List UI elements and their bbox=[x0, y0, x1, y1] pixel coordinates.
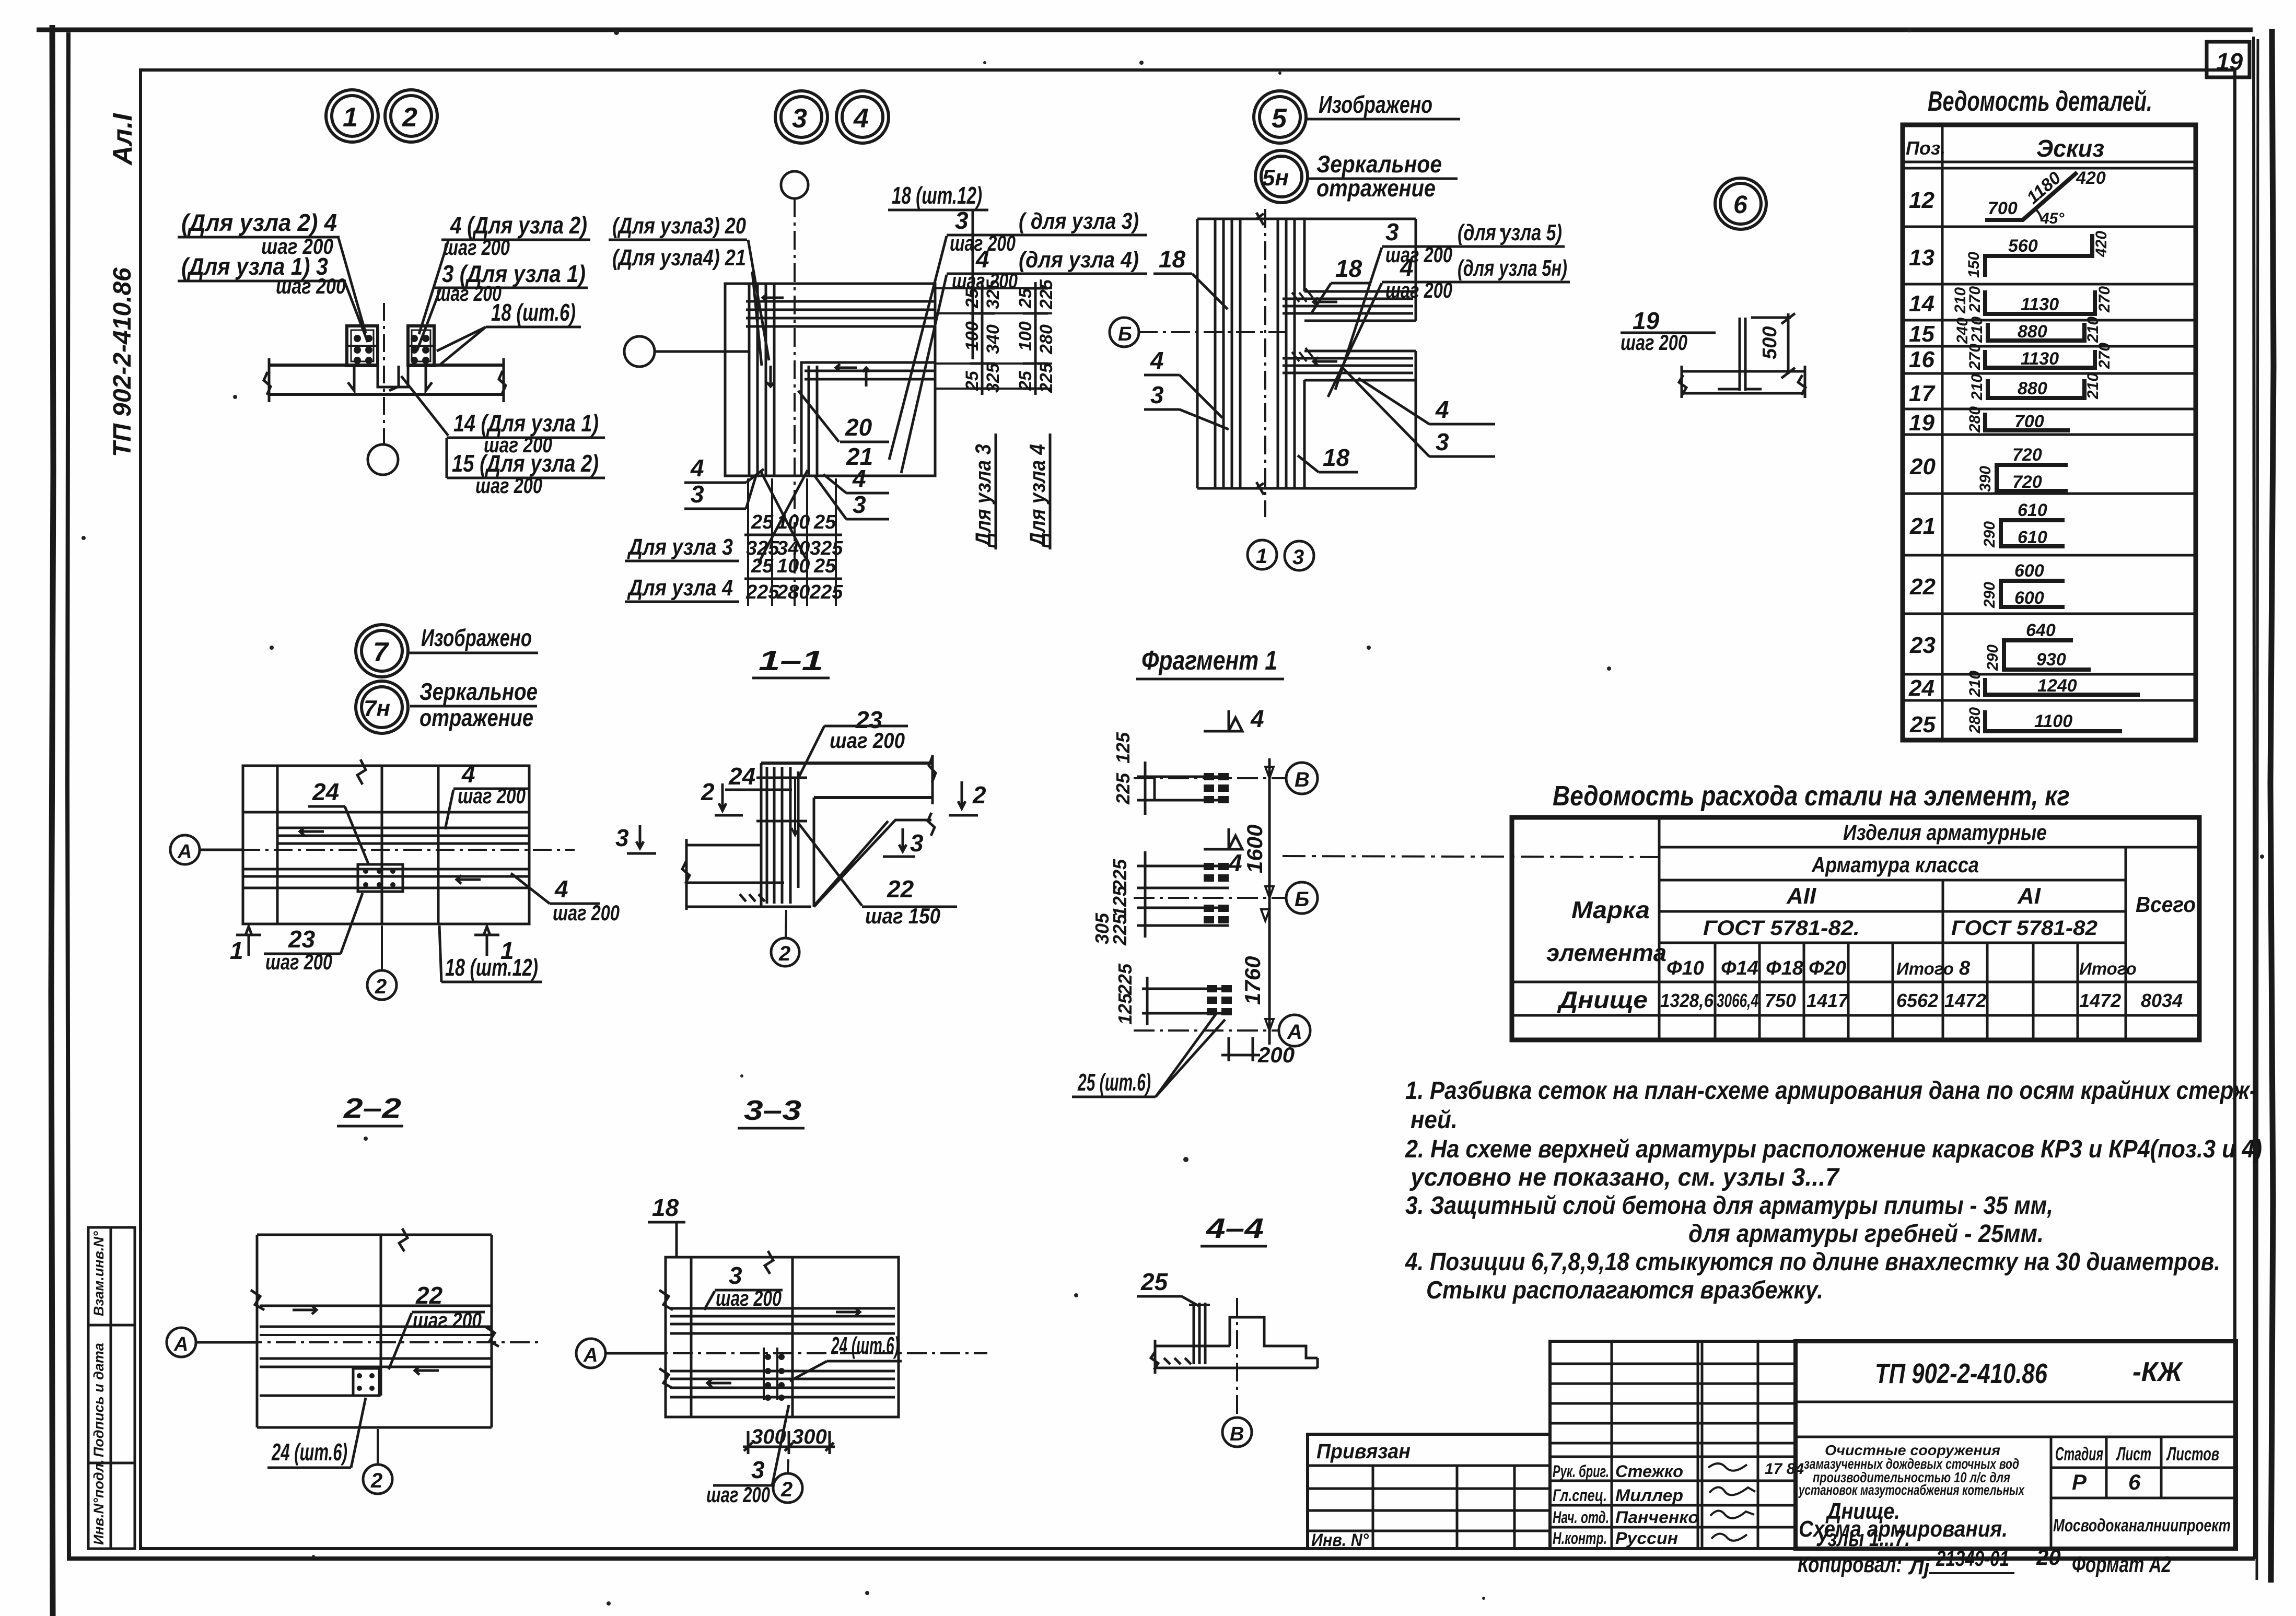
svg-text:(для узла 5н): (для узла 5н) bbox=[1458, 255, 1567, 281]
svg-text:6562: 6562 bbox=[1896, 990, 1938, 1011]
svg-text:125: 125 bbox=[1109, 885, 1130, 917]
svg-text:шаг 200: шаг 200 bbox=[716, 1286, 782, 1310]
row14 bbox=[1985, 290, 2095, 314]
svg-text:ней.: ней. bbox=[1411, 1106, 1458, 1134]
svg-text:условно не показано, см. узлы: условно не показано, см. узлы 3...7 bbox=[1409, 1164, 1840, 1191]
svg-text:Ф20: Ф20 bbox=[1809, 957, 1846, 979]
svg-text:290: 290 bbox=[1981, 582, 1998, 608]
DETAIL NODES 1/2 cross-section bbox=[178, 209, 605, 498]
svg-text:Изображено: Изображено bbox=[1319, 91, 1432, 118]
rebar cluster near B bbox=[1137, 762, 1229, 815]
svg-text:100: 100 bbox=[777, 511, 810, 533]
svg-text:100: 100 bbox=[777, 555, 810, 577]
svg-text:23: 23 bbox=[1909, 633, 1936, 658]
svg-text:210: 210 bbox=[1966, 671, 1984, 697]
svg-text:1: 1 bbox=[1256, 545, 1267, 568]
svg-text:280: 280 bbox=[1036, 324, 1056, 355]
svg-text:Рук. бриг.: Рук. бриг. bbox=[1553, 1462, 1609, 1481]
svg-text:19: 19 bbox=[1909, 410, 1934, 436]
svg-text:2: 2 bbox=[972, 781, 986, 809]
axis rows bbox=[1134, 777, 1286, 779]
svg-text:15: 15 bbox=[1909, 321, 1934, 347]
DETAIL NODE 7 plan bbox=[170, 759, 620, 1000]
svg-text:22: 22 bbox=[415, 1282, 443, 1309]
row21 bbox=[2001, 520, 2065, 546]
svg-text:шаг 200: шаг 200 bbox=[276, 274, 346, 298]
profile bbox=[1155, 1345, 1230, 1348]
svg-text:1130: 1130 bbox=[2021, 295, 2059, 314]
X leader bbox=[815, 821, 888, 905]
svg-text:300: 300 bbox=[792, 1425, 827, 1448]
svg-text:Инв.N°подл.: Инв.N°подл. bbox=[91, 1459, 107, 1545]
vertical axis bbox=[1268, 758, 1271, 1045]
svg-text:4: 4 bbox=[1250, 705, 1264, 732]
outline bbox=[666, 1257, 899, 1417]
svg-text:100: 100 bbox=[1016, 321, 1035, 351]
svg-text:Р: Р bbox=[2072, 1470, 2087, 1494]
bottom circles 1 3 bbox=[1248, 540, 1277, 569]
svg-text:25: 25 bbox=[1016, 288, 1035, 309]
left wall rebar bbox=[748, 284, 751, 476]
row22 bbox=[2001, 581, 2065, 607]
dim arrows on axis bbox=[1261, 767, 1274, 1031]
svg-text:24 (шт.6): 24 (шт.6) bbox=[271, 1438, 347, 1466]
svg-text:Итого: Итого bbox=[2079, 959, 2137, 978]
middle revision block bbox=[1550, 1341, 1796, 1549]
svg-text:23: 23 bbox=[288, 926, 316, 953]
svg-text:225: 225 bbox=[1036, 362, 1056, 393]
svg-text:290: 290 bbox=[1981, 521, 1998, 548]
svg-text:270: 270 bbox=[2096, 343, 2113, 369]
svg-text:290: 290 bbox=[1984, 645, 2001, 671]
svg-text:600: 600 bbox=[2014, 561, 2044, 581]
svg-text:14: 14 bbox=[1909, 291, 1934, 317]
svg-text:25: 25 bbox=[751, 555, 774, 577]
NOTES bbox=[1405, 1077, 2262, 1304]
svg-text:отражение: отражение bbox=[419, 704, 533, 731]
svg-text:ГОСТ 5781-82: ГОСТ 5781-82 bbox=[1951, 917, 2097, 940]
svg-text:225: 225 bbox=[809, 581, 843, 603]
svg-text:В: В bbox=[1295, 768, 1310, 791]
svg-text:А: А bbox=[177, 841, 192, 863]
svg-text:930: 930 bbox=[2036, 650, 2066, 670]
svg-text:Всего: Всего bbox=[2136, 892, 2196, 917]
svg-text:270: 270 bbox=[2096, 286, 2113, 313]
row15 bbox=[1988, 323, 2084, 341]
svg-text:100: 100 bbox=[962, 321, 982, 351]
svg-text:1130: 1130 bbox=[2021, 349, 2059, 369]
svg-text:ТП 902-2-410.86: ТП 902-2-410.86 bbox=[109, 267, 136, 457]
svg-text:280: 280 bbox=[1966, 707, 1984, 734]
svg-text:4: 4 bbox=[554, 875, 568, 903]
svg-text:17: 17 bbox=[1909, 381, 1936, 406]
svg-text:21349-01: 21349-01 bbox=[1936, 1546, 2009, 1571]
svg-text:420: 420 bbox=[2093, 231, 2110, 257]
outline bbox=[257, 1234, 492, 1236]
embedded box bbox=[353, 1368, 379, 1396]
svg-text:2: 2 bbox=[701, 778, 715, 805]
svg-text:элемента: элемента bbox=[1546, 939, 1666, 966]
svg-text:18: 18 bbox=[1323, 444, 1350, 471]
svg-text:2: 2 bbox=[778, 942, 790, 965]
svg-text:225: 225 bbox=[1114, 963, 1136, 996]
DETAIL NODE 6 bbox=[1621, 307, 1805, 398]
svg-text:225: 225 bbox=[745, 581, 779, 603]
svg-text:Инв. N°: Инв. N° bbox=[1311, 1530, 1369, 1550]
svg-text:2. На схеме верхней арматуры р: 2. На схеме верхней арматуры расположени… bbox=[1405, 1135, 2262, 1163]
svg-text:150: 150 bbox=[1965, 252, 1983, 278]
svg-text:210: 210 bbox=[2084, 373, 2102, 400]
bottom labels bbox=[401, 376, 448, 436]
svg-text:Марка: Марка bbox=[1571, 896, 1650, 923]
svg-text:4. Позиции 6,7,8,9,18 стыкуютс: 4. Позиции 6,7,8,9,18 стыкуются по длине… bbox=[1405, 1248, 2220, 1276]
svg-text:4: 4 bbox=[852, 465, 866, 492]
svg-text:4: 4 bbox=[853, 103, 869, 134]
svg-text:210: 210 bbox=[2084, 317, 2102, 343]
svg-text:18 (шт.12): 18 (шт.12) bbox=[892, 182, 982, 209]
svg-text:АI: АI bbox=[2017, 883, 2041, 909]
svg-text:3: 3 bbox=[792, 103, 807, 134]
svg-text:25: 25 bbox=[813, 511, 836, 533]
svg-text:Б: Б bbox=[1118, 323, 1132, 345]
svg-text:установок мазутоснабжения коте: установок мазутоснабжения котельных bbox=[1798, 1482, 2025, 1498]
svg-text:Итого: Итого bbox=[1896, 959, 1954, 978]
svg-text:4: 4 bbox=[1400, 254, 1414, 281]
svg-text:А: А bbox=[583, 1344, 598, 1366]
svg-text:3: 3 bbox=[1436, 428, 1449, 455]
svg-text:3: 3 bbox=[691, 481, 704, 508]
svg-text:8034: 8034 bbox=[2141, 990, 2183, 1011]
svg-text:Панченко: Панченко bbox=[1615, 1508, 1699, 1527]
svg-text:для арматуры гребней - 25мм.: для арматуры гребней - 25мм. bbox=[1688, 1220, 2044, 1248]
svg-text:210: 210 bbox=[1952, 287, 1969, 314]
svg-text:Ал.I: Ал.I bbox=[108, 113, 138, 166]
svg-text:Гл.спец.: Гл.спец. bbox=[1553, 1486, 1607, 1505]
svg-text:420: 420 bbox=[2076, 168, 2106, 188]
embedded element box bbox=[358, 864, 403, 892]
svg-text:ТП 902-2-410.86: ТП 902-2-410.86 bbox=[1875, 1358, 2048, 1389]
svg-text:1: 1 bbox=[230, 937, 243, 964]
svg-text:2: 2 bbox=[780, 1478, 792, 1501]
hooks below bbox=[348, 366, 354, 391]
svg-text:25: 25 bbox=[1016, 370, 1035, 391]
svg-text:Зеркальное: Зеркальное bbox=[419, 678, 538, 705]
svg-text:720: 720 bbox=[2012, 445, 2042, 465]
base hatch bbox=[740, 894, 765, 901]
svg-text:Изображено: Изображено bbox=[421, 624, 532, 651]
svg-text:шаг 200: шаг 200 bbox=[830, 728, 905, 753]
svg-text:1328,6: 1328,6 bbox=[1660, 990, 1714, 1011]
svg-text:16: 16 bbox=[1909, 347, 1934, 372]
svg-text:Подпись и дата: Подпись и дата bbox=[91, 1343, 107, 1457]
svg-text:3: 3 bbox=[729, 1262, 742, 1289]
svg-text:Нач. отд.: Нач. отд. bbox=[1553, 1508, 1609, 1527]
svg-text:12: 12 bbox=[1909, 188, 1934, 213]
svg-text:шаг 200: шаг 200 bbox=[1385, 278, 1452, 302]
svg-text:АII: АII bbox=[1786, 883, 1816, 909]
dots cluster bbox=[765, 1354, 785, 1401]
row16 bbox=[1985, 350, 2095, 368]
lower left slab bbox=[686, 844, 762, 847]
svg-text:225: 225 bbox=[1036, 279, 1056, 310]
svg-text:640: 640 bbox=[2026, 620, 2056, 640]
svg-text:13: 13 bbox=[1909, 245, 1934, 271]
svg-text:610: 610 bbox=[2018, 500, 2047, 520]
svg-text:24: 24 bbox=[1908, 675, 1934, 701]
svg-text:22: 22 bbox=[1909, 574, 1936, 600]
svg-text:1: 1 bbox=[500, 937, 514, 964]
lower slab band bbox=[1304, 350, 1416, 353]
DETAIL NODES 3/4 corner plan bbox=[609, 171, 1147, 606]
signatures squiggles bbox=[1708, 1463, 1747, 1471]
svg-text:В: В bbox=[1230, 1423, 1244, 1445]
svg-text:Взам.инв.N°: Взам.инв.N° bbox=[91, 1231, 107, 1316]
right dimension chains bbox=[935, 288, 1052, 389]
SECTION 4-4 bbox=[1137, 1213, 1318, 1447]
svg-text:720: 720 bbox=[2012, 472, 2042, 492]
top group bbox=[670, 1307, 895, 1310]
svg-text:18 (шт.12): 18 (шт.12) bbox=[445, 954, 538, 981]
FRAGMENT 1 bbox=[1072, 646, 1659, 1097]
svg-text:А: А bbox=[1287, 1021, 1302, 1044]
corner hatch ticks bbox=[1292, 288, 1313, 302]
right rib bbox=[408, 326, 434, 366]
svg-text:210: 210 bbox=[1968, 374, 1986, 401]
binding strip lines right bbox=[2257, 39, 2258, 1580]
svg-text:Стежко: Стежко bbox=[1615, 1462, 1683, 1481]
svg-text:305: 305 bbox=[1091, 912, 1113, 944]
inner corner bbox=[801, 362, 935, 476]
svg-text:Фрагмент 1: Фрагмент 1 bbox=[1141, 646, 1277, 676]
svg-text:280: 280 bbox=[1966, 406, 1984, 433]
svg-text:500: 500 bbox=[1759, 326, 1781, 359]
outer scan edge left bbox=[51, 25, 53, 1616]
svg-text:-КЖ: -КЖ bbox=[2132, 1357, 2184, 1387]
svg-text:(Для узла3) 20: (Для узла3) 20 bbox=[612, 213, 746, 239]
svg-text:125: 125 bbox=[1112, 732, 1134, 764]
svg-text:1417: 1417 bbox=[1807, 990, 1849, 1011]
svg-text:шаг 200: шаг 200 bbox=[1385, 242, 1452, 267]
svg-text:Лист: Лист bbox=[2116, 1443, 2151, 1465]
svg-text:3–3: 3–3 bbox=[744, 1095, 801, 1126]
svg-text:Привязан: Привязан bbox=[1316, 1440, 1411, 1463]
svg-text:5: 5 bbox=[1272, 103, 1287, 134]
svg-text:Стыки располагаются вразбежку.: Стыки располагаются вразбежку. bbox=[1426, 1277, 1823, 1304]
svg-text:ГОСТ 5781-82.: ГОСТ 5781-82. bbox=[1703, 917, 1860, 940]
svg-text:1760: 1760 bbox=[1240, 956, 1265, 1005]
svg-text:4: 4 bbox=[1435, 396, 1449, 423]
svg-text:Изделия арматурные: Изделия арматурные bbox=[1843, 820, 2047, 845]
svg-text:5н: 5н bbox=[1262, 165, 1289, 191]
svg-text:25 (шт.6): 25 (шт.6) bbox=[1077, 1069, 1151, 1096]
svg-text:шаг 150: шаг 150 bbox=[865, 904, 940, 928]
plan outline bbox=[725, 284, 935, 476]
svg-text:шаг 200: шаг 200 bbox=[413, 1308, 482, 1332]
svg-text:Б: Б bbox=[1295, 888, 1309, 911]
svg-text:24: 24 bbox=[312, 778, 339, 805]
svg-text:18 (шт.6): 18 (шт.6) bbox=[491, 299, 576, 326]
svg-text:Ф10: Ф10 bbox=[1666, 957, 1704, 979]
svg-text:Для узла 3: Для узла 3 bbox=[627, 534, 733, 560]
svg-text:7н: 7н bbox=[364, 696, 390, 721]
svg-text:Зеркальное: Зеркальное bbox=[1316, 150, 1442, 178]
svg-text:Ф14: Ф14 bbox=[1721, 957, 1758, 979]
svg-text:(Для узла 2) 4: (Для узла 2) 4 bbox=[181, 209, 337, 236]
svg-text:шаг 200: шаг 200 bbox=[265, 950, 332, 974]
svg-text:1600: 1600 bbox=[1242, 825, 1267, 873]
sheet number box 19 bbox=[2207, 42, 2250, 77]
svg-text:880: 880 bbox=[2018, 379, 2047, 399]
left stamp strip bbox=[88, 1227, 135, 1549]
svg-text:18: 18 bbox=[1159, 245, 1186, 273]
svg-text:25: 25 bbox=[962, 288, 982, 309]
svg-text:шаг 200: шаг 200 bbox=[443, 235, 510, 260]
row24 bbox=[1985, 678, 2140, 695]
top and bottom edges bbox=[1197, 218, 1416, 220]
recess U between ribs bbox=[378, 365, 408, 387]
svg-text:1. Разбивка сеток на план-схе: 1. Разбивка сеток на план-схеме армирова… bbox=[1405, 1077, 2257, 1105]
svg-text:шаг 200: шаг 200 bbox=[475, 473, 542, 498]
svg-text:1472: 1472 bbox=[2079, 990, 2121, 1011]
svg-text:20: 20 bbox=[1909, 454, 1936, 479]
slope and right lower edge bbox=[814, 820, 931, 907]
VEDOMOST DETALEY TABLE (top right) bbox=[1903, 86, 2196, 740]
left rib bbox=[347, 326, 378, 366]
outer sheet border bbox=[37, 28, 2253, 32]
svg-text:шаг 200: шаг 200 bbox=[1621, 330, 1687, 355]
row20 bbox=[1997, 465, 2068, 491]
svg-text:Ведомость расхода стали на эле: Ведомость расхода стали на элемент, кг bbox=[1553, 780, 2070, 812]
svg-text:22: 22 bbox=[887, 875, 914, 903]
svg-text:( для узла 3): ( для узла 3) bbox=[1019, 208, 1139, 234]
svg-text:Днище: Днище bbox=[1557, 986, 1648, 1013]
right area bbox=[1796, 1341, 2236, 1549]
svg-text:700: 700 bbox=[1988, 198, 2018, 218]
rebar cluster near Б bbox=[1137, 851, 1229, 938]
svg-text:25: 25 bbox=[1909, 712, 1936, 737]
NODE CIRCLES bbox=[326, 90, 1766, 733]
crossing leaders to bottom mid labels bbox=[759, 470, 808, 563]
row19 bbox=[1985, 413, 2070, 430]
svg-text:2: 2 bbox=[370, 1469, 382, 1492]
row13 sketch bbox=[1985, 234, 2092, 277]
svg-text:1100: 1100 bbox=[2034, 711, 2072, 731]
svg-text:45°: 45° bbox=[2040, 210, 2065, 227]
svg-text:25: 25 bbox=[962, 370, 982, 391]
svg-text:6: 6 bbox=[1733, 191, 1747, 219]
STEEL CONSUMPTION TABLE bbox=[1512, 780, 2199, 1040]
svg-text:18: 18 bbox=[652, 1194, 679, 1221]
svg-text:3066,4: 3066,4 bbox=[1717, 990, 1758, 1011]
svg-text:3: 3 bbox=[910, 829, 924, 857]
svg-text:21: 21 bbox=[1909, 513, 1936, 539]
svg-text:2–2: 2–2 bbox=[343, 1093, 401, 1124]
svg-text:Для узла 4: Для узла 4 bbox=[1025, 444, 1050, 548]
svg-text:Для узла 4: Для узла 4 bbox=[627, 575, 733, 601]
svg-text:4: 4 bbox=[690, 454, 704, 482]
svg-text:отражение: отражение bbox=[1316, 174, 1436, 202]
svg-text:20: 20 bbox=[2036, 1545, 2061, 1570]
svg-text:280: 280 bbox=[776, 581, 810, 603]
slab bbox=[269, 364, 378, 367]
svg-text:6: 6 bbox=[2128, 1470, 2141, 1494]
svg-text:240: 240 bbox=[1954, 318, 1971, 344]
svg-text:3: 3 bbox=[615, 824, 629, 851]
svg-text:1240: 1240 bbox=[2037, 676, 2077, 696]
svg-text:560: 560 bbox=[2008, 236, 2038, 256]
svg-text:325: 325 bbox=[983, 362, 1003, 393]
svg-text:325: 325 bbox=[983, 279, 1003, 309]
svg-text:4–4: 4–4 bbox=[1206, 1213, 1264, 1244]
svg-text:Копировал:: Копировал: bbox=[1798, 1552, 1902, 1577]
row12 sketch bbox=[1985, 172, 2077, 220]
svg-text:24: 24 bbox=[728, 763, 755, 790]
svg-text:2: 2 bbox=[375, 975, 387, 998]
svg-text:600: 600 bbox=[2014, 588, 2044, 608]
svg-text:25: 25 bbox=[813, 555, 836, 577]
svg-text:Мосводоканалниипроект: Мосводоканалниипроект bbox=[2053, 1516, 2231, 1536]
bars bbox=[1193, 1303, 1195, 1364]
row23 bbox=[2004, 640, 2091, 670]
200 dim bbox=[1221, 1037, 1260, 1061]
svg-text:Лj: Лj bbox=[1908, 1556, 1930, 1579]
svg-text:4: 4 bbox=[1150, 347, 1164, 374]
svg-text:Н.контр.: Н.контр. bbox=[1553, 1529, 1607, 1548]
svg-text:3: 3 bbox=[751, 1456, 765, 1483]
svg-text:Ф18: Ф18 bbox=[1766, 957, 1804, 979]
svg-text:Эскиз: Эскиз bbox=[2036, 135, 2104, 162]
small arrows in plan bbox=[763, 294, 784, 301]
rebar cluster near A bbox=[1142, 977, 1229, 1025]
svg-text:25: 25 bbox=[751, 511, 774, 533]
upper slab bbox=[761, 762, 933, 765]
wall band verticals bbox=[1196, 219, 1199, 488]
svg-text:Стадия: Стадия bbox=[2055, 1443, 2103, 1465]
svg-text:1: 1 bbox=[343, 102, 358, 133]
svg-text:Миллер: Миллер bbox=[1615, 1486, 1683, 1505]
TITLE BLOCK bbox=[1308, 1341, 2236, 1551]
svg-text:(для узла 4): (для узла 4) bbox=[1019, 247, 1139, 273]
inner lines bbox=[260, 1305, 492, 1307]
svg-text:(Для узла4) 21: (Для узла4) 21 bbox=[612, 245, 746, 271]
svg-text:4: 4 bbox=[1228, 849, 1242, 876]
svg-text:1472: 1472 bbox=[1944, 990, 1986, 1011]
tie ticks bbox=[756, 777, 807, 779]
left attach part bbox=[1308, 1434, 1550, 1549]
DETAIL NODE 5 tee plan bbox=[1110, 209, 1570, 570]
top wall rebar bbox=[746, 300, 935, 303]
svg-text:Листов: Листов bbox=[2166, 1443, 2219, 1465]
svg-text:390: 390 bbox=[1977, 466, 1994, 492]
svg-text:7: 7 bbox=[373, 637, 389, 668]
svg-text:3: 3 bbox=[1385, 218, 1399, 245]
svg-text:3: 3 bbox=[1292, 546, 1304, 569]
svg-text:17 84: 17 84 bbox=[1765, 1460, 1804, 1478]
svg-text:25: 25 bbox=[1140, 1268, 1169, 1295]
svg-text:225: 225 bbox=[1112, 772, 1134, 805]
svg-text:Арматура класса: Арматура класса bbox=[1811, 852, 1979, 877]
svg-text:200: 200 bbox=[1257, 1043, 1295, 1067]
svg-text:(для узла 5): (для узла 5) bbox=[1458, 220, 1562, 245]
svg-text:18: 18 bbox=[1335, 255, 1362, 282]
svg-text:3. Защитный слой бетона для ар: 3. Защитный слой бетона для арматуры пли… bbox=[1405, 1192, 2053, 1220]
row25 bbox=[1985, 710, 2122, 731]
svg-text:Ведомость деталей.: Ведомость деталей. bbox=[1928, 86, 2152, 117]
svg-text:3: 3 bbox=[1150, 381, 1164, 408]
svg-text:19: 19 bbox=[2216, 48, 2243, 75]
svg-text:610: 610 bbox=[2018, 528, 2047, 547]
SECTION 3-3 bbox=[576, 1095, 987, 1507]
